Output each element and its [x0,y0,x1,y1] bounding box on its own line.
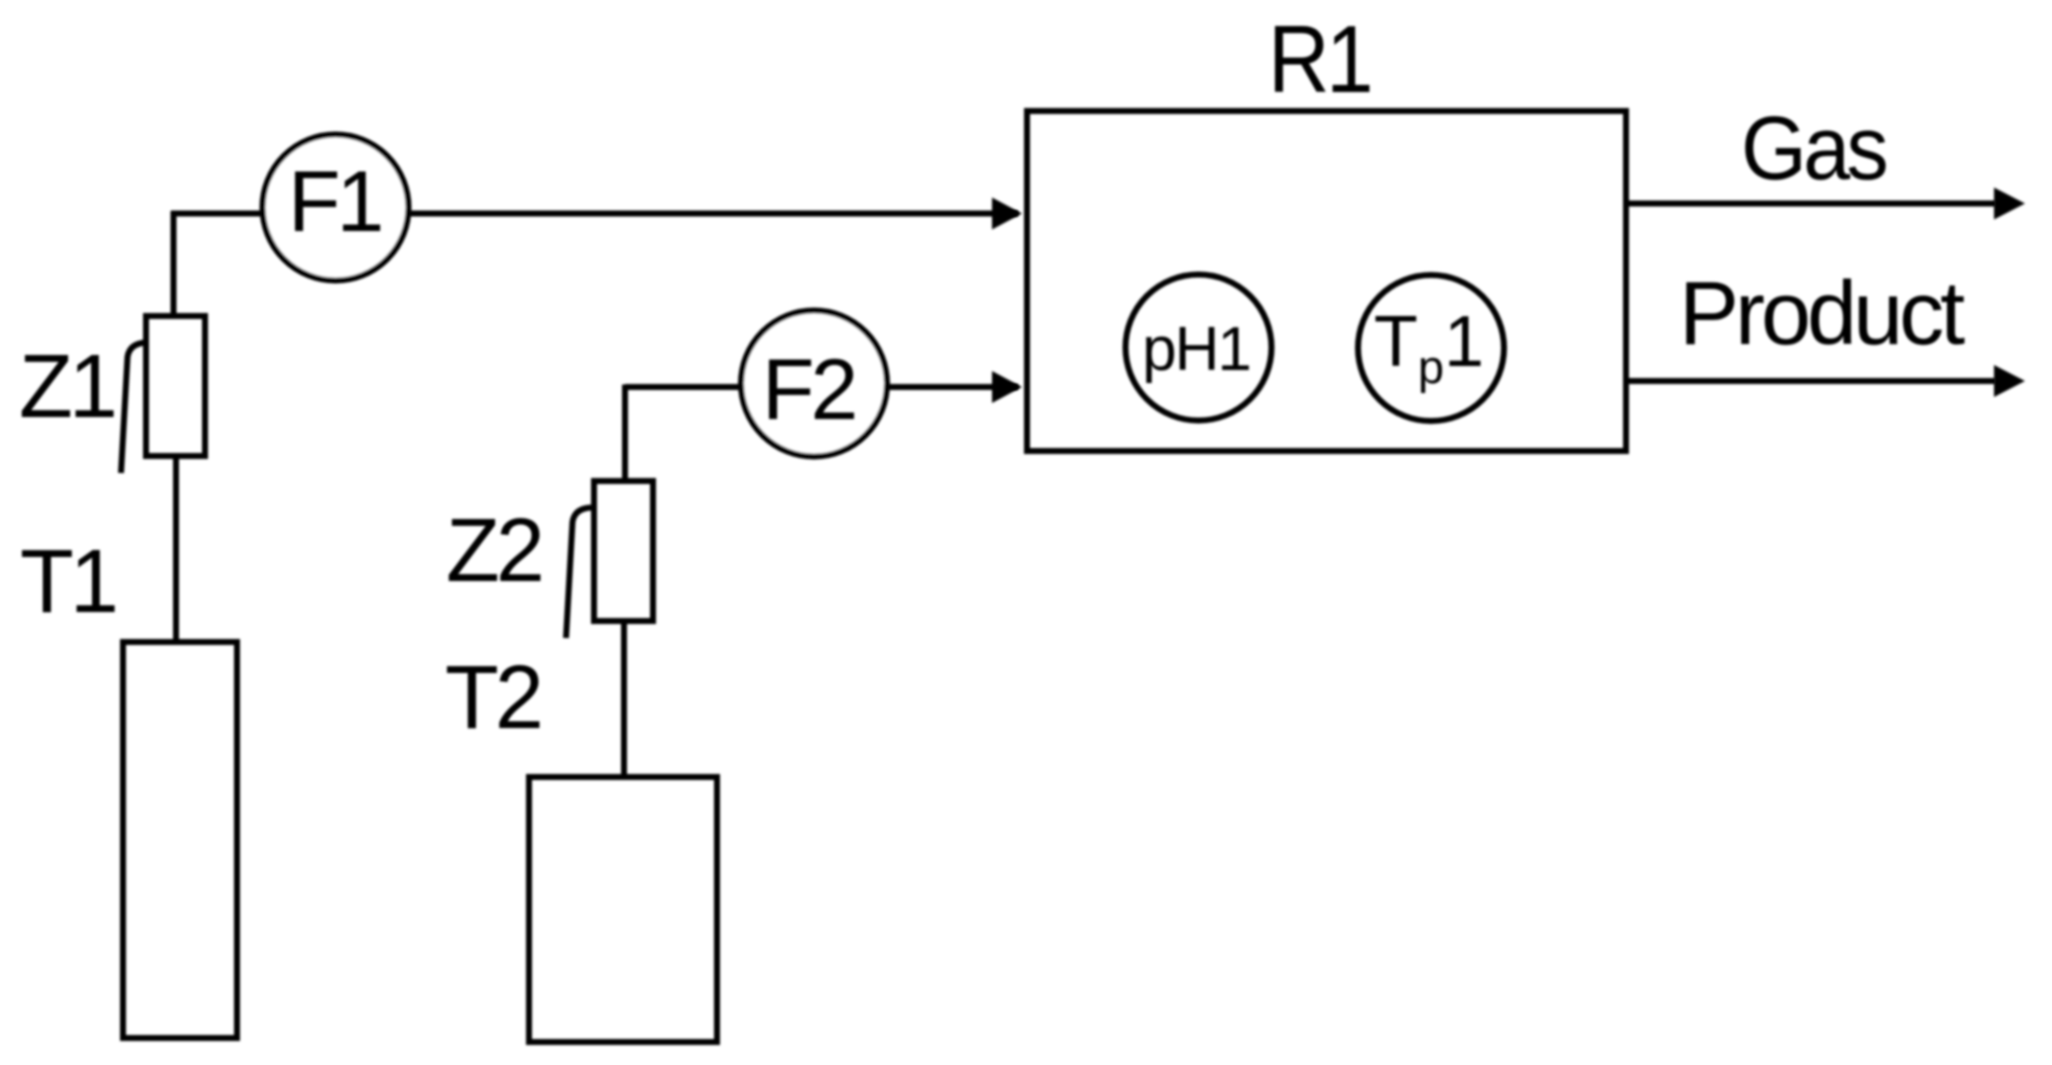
reactor R1 [1027,111,1626,451]
svg-text:F2: F2 [762,342,855,438]
svg-text:pH1: pH1 [1142,315,1250,384]
svg-text:Product: Product [1679,264,1965,364]
svg-text:Z2: Z2 [446,501,541,601]
svg-text:T1: T1 [20,532,115,632]
valve Z1 handle [121,343,146,474]
arrowhead F2 inlet [992,371,1022,403]
svg-text:Z1: Z1 [19,337,114,437]
wire F2 feed horizontal [625,384,1018,390]
valve Z1 [146,316,205,456]
wire F1 feed horizontal [171,211,1018,217]
arrowhead Gas [1994,188,2025,220]
tank T1 [123,642,237,1038]
tank T2 [529,777,717,1042]
svg-text:F1: F1 [288,154,381,250]
arrowhead F1 inlet [992,198,1022,230]
wire corner F1 vertical to Z1 [171,211,177,316]
wire Product out [1629,378,1996,384]
valve Z2 handle [566,508,591,639]
svg-text:R1: R1 [1268,6,1370,113]
arrowhead Product [1994,365,2025,397]
wire corner F2 vertical to Z2 [622,385,628,482]
svg-text:T2: T2 [445,648,540,748]
flow meter F1 [263,135,409,281]
valve Z2 [594,481,653,621]
wire Z1 to T1 [173,456,179,642]
svg-text:Gas: Gas [1741,99,1886,199]
sensor pH1 [1126,275,1272,421]
wire Z2 to T2 [621,621,627,777]
flow meter F2 [741,311,887,457]
sensor Tp1 [1358,275,1504,421]
wire Gas out [1629,201,1996,207]
